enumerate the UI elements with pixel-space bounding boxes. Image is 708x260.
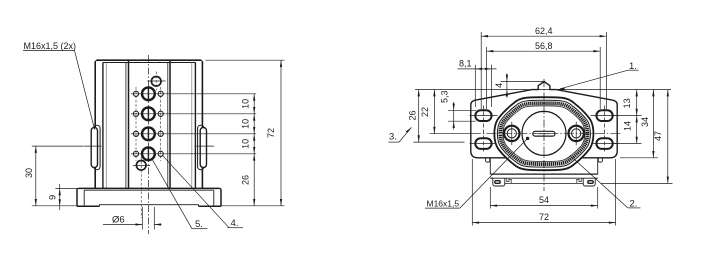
label M16x1,5 front underline bbox=[425, 207, 460, 209]
svg-text:3.: 3. bbox=[389, 132, 397, 143]
obround TR cross bbox=[591, 115, 619, 117]
body right edge bbox=[201, 61, 203, 188]
boss seal hatch band ticks bbox=[500, 103, 587, 164]
dim 13 14 ext bottom bbox=[612, 143, 642, 145]
ground line left bbox=[32, 205, 78, 207]
small hole axis right dashed bbox=[160, 87, 162, 161]
front view horizontal center line bbox=[430, 133, 471, 135]
base right foot bbox=[583, 178, 598, 186]
dim 72 arrows front bbox=[472, 221, 615, 223]
base upper line bbox=[490, 177, 597, 179]
central boss outer contour bbox=[494, 97, 593, 170]
svg-text:10: 10 bbox=[240, 99, 250, 109]
svg-text:4.: 4. bbox=[231, 218, 239, 229]
dim 62,4 arrows bbox=[481, 35, 606, 37]
dia6 right arrow bbox=[154, 223, 161, 225]
dim 8,1 arrows bbox=[475, 68, 491, 70]
dim 47 arrows bbox=[667, 90, 669, 184]
plate right foot tab bbox=[598, 158, 602, 162]
hole extension line left bbox=[141, 207, 143, 230]
dim 72 bottom arrow bbox=[280, 199, 282, 206]
dim 13 arrows bbox=[636, 90, 638, 116]
dim 22 arrows bbox=[433, 90, 435, 134]
plug P3 bbox=[142, 127, 155, 140]
base flange top-left corner bbox=[77, 188, 79, 190]
small hole R1 bbox=[158, 91, 163, 96]
rear plate top edge bbox=[415, 89, 671, 91]
dim 47 ext bottom bbox=[601, 182, 673, 184]
obround left axis dashed bbox=[483, 106, 485, 154]
dia6 dimension line bbox=[103, 224, 142, 226]
dim 72 ext right front bbox=[615, 159, 617, 226]
right boss front outline bbox=[200, 128, 206, 168]
dim 30 line bbox=[35, 146, 37, 206]
dim 8,1 ext left bbox=[474, 65, 476, 107]
dim 26 arrows front bbox=[418, 90, 420, 143]
svg-text:47: 47 bbox=[653, 131, 663, 141]
leader 1 arrow bbox=[558, 88, 565, 90]
plug P1 bbox=[142, 87, 155, 100]
dim 10 arrows r1 bbox=[253, 94, 255, 114]
dim 4 arrows bbox=[506, 75, 508, 97]
dim 5,3 ext top bbox=[448, 109, 476, 111]
plug P4 bbox=[142, 147, 155, 160]
base left notch bbox=[507, 178, 511, 183]
svg-text:10: 10 bbox=[240, 119, 250, 129]
boss face contour bbox=[503, 106, 585, 162]
obround TL cross bbox=[470, 115, 498, 117]
label 1 underline bbox=[628, 69, 639, 71]
top extension right bbox=[206, 59, 285, 61]
body vertical line c1 bbox=[167, 63, 169, 189]
central circle bbox=[522, 111, 566, 155]
body vertical line b1 bbox=[125, 63, 127, 189]
ground extension right bbox=[205, 205, 285, 207]
dim 56,8 ext right bbox=[599, 47, 601, 109]
hole extension line right bbox=[153, 207, 155, 230]
svg-text:9: 9 bbox=[48, 195, 58, 200]
label 2 underline bbox=[628, 207, 641, 209]
top plug cross line bbox=[148, 80, 166, 82]
dim 9 top arrow bbox=[59, 188, 61, 195]
base right notch bbox=[577, 178, 581, 183]
svg-text:72: 72 bbox=[266, 128, 276, 138]
svg-text:Ø6: Ø6 bbox=[112, 215, 125, 226]
right boss center line bbox=[196, 145, 214, 147]
bottom plug circle bbox=[136, 161, 146, 171]
dim 5,3 ext bottom bbox=[448, 120, 476, 122]
dim 54 ext right bbox=[597, 187, 599, 209]
dim 62,4 ext right bbox=[605, 32, 607, 109]
base recessed bottom bbox=[100, 205, 199, 207]
leader 4 bbox=[163, 156, 229, 228]
top plug circle bbox=[151, 77, 161, 87]
base flange second line bbox=[84, 189, 214, 191]
svg-text:72: 72 bbox=[539, 212, 549, 222]
obround BR cross bbox=[591, 143, 619, 145]
small hole R4 bbox=[158, 151, 163, 156]
dim 4 ext line bbox=[501, 80, 545, 82]
base left foot bbox=[490, 178, 505, 186]
front view vertical center line bbox=[543, 79, 545, 191]
leader 3 bbox=[399, 127, 412, 142]
boss inner contour 1 bbox=[497, 100, 590, 167]
small hole axis left dashed bbox=[135, 87, 137, 161]
dim 62,4 line bbox=[481, 35, 606, 37]
row line 4 bbox=[131, 153, 256, 155]
dim 8,1 line bbox=[458, 68, 497, 70]
dim 30 extension line bbox=[32, 145, 83, 147]
dia6 right tail bbox=[154, 224, 161, 226]
port circle left outer bbox=[504, 126, 519, 141]
boss seal hatch band bbox=[500, 103, 587, 164]
base right foot bottom bbox=[199, 205, 222, 207]
dim 47 line bbox=[667, 90, 669, 184]
small hole R2 bbox=[158, 111, 163, 116]
dim 54 line bbox=[490, 205, 597, 207]
dim 72 line front bbox=[472, 222, 615, 224]
center slot outer bbox=[533, 131, 555, 136]
label M16x1,5 (2x) underline bbox=[23, 50, 75, 52]
svg-text:M16x1,5 (2x): M16x1,5 (2x) bbox=[24, 41, 77, 51]
leader M16 front bbox=[460, 138, 528, 208]
dim 26 line front bbox=[418, 90, 420, 143]
row line 2 bbox=[131, 113, 256, 115]
body sides below plate right bbox=[597, 158, 599, 174]
column top right edge mark bbox=[159, 60, 161, 62]
svg-text:22: 22 bbox=[420, 107, 430, 117]
leader M16 dot bbox=[526, 137, 529, 140]
dim 56,8 line bbox=[487, 50, 601, 52]
base left foot bottom bbox=[77, 205, 100, 207]
dim 72 ext left front bbox=[471, 159, 473, 226]
port circle left inner bbox=[507, 129, 516, 138]
dim 5,3 line bbox=[453, 102, 455, 130]
center slot inner line bbox=[539, 133, 550, 135]
svg-text:30: 30 bbox=[24, 168, 34, 178]
center axis dash-dot bbox=[147, 55, 149, 234]
dim 54 arrows bbox=[490, 204, 597, 206]
dim 34 arrows bbox=[652, 90, 654, 158]
base middle bottom bbox=[505, 182, 583, 184]
base flange top-right corner bbox=[219, 188, 221, 190]
dim 9 extension line bbox=[55, 187, 78, 189]
label 3 underline bbox=[389, 141, 400, 143]
body outline top edge bbox=[96, 59, 201, 61]
body left edge bbox=[94, 61, 96, 188]
dim 30 top arrow bbox=[35, 146, 37, 153]
leader M16 left view bbox=[75, 51, 95, 130]
dim 14 arrows bbox=[636, 116, 638, 144]
plug P4 slot bbox=[147, 147, 149, 162]
port circle right inner bbox=[572, 129, 581, 138]
body vertical line c2 bbox=[169, 60, 171, 188]
svg-text:56,8: 56,8 bbox=[535, 41, 553, 51]
right boss rear outline bbox=[198, 125, 204, 170]
obround BL cross bbox=[470, 143, 498, 145]
dim 10 arrows r2 bbox=[253, 114, 255, 134]
left boss center line bbox=[84, 145, 102, 147]
dim 26 ext bottom bbox=[414, 141, 465, 143]
base right foot inner bar bbox=[588, 181, 593, 184]
dim 56,8 arrows bbox=[487, 50, 601, 52]
dim 9 bottom arrow bbox=[59, 199, 61, 206]
obround slot bottom-left bbox=[475, 138, 491, 149]
top plug axis dashed bbox=[155, 72, 157, 91]
front plate outline bbox=[471, 82, 617, 158]
leader 1 bbox=[560, 70, 628, 89]
dim 34 ext bottom bbox=[620, 157, 658, 159]
row line 1 bbox=[131, 93, 256, 95]
dim 13 line bbox=[636, 90, 638, 144]
base flange right edge bbox=[220, 190, 222, 206]
leader 5 bbox=[152, 159, 192, 229]
base flange top line bbox=[79, 187, 220, 189]
svg-text:14: 14 bbox=[623, 121, 633, 131]
svg-text:10: 10 bbox=[240, 139, 250, 149]
dia6 left arrow bbox=[136, 223, 143, 225]
svg-text:26: 26 bbox=[240, 175, 250, 185]
obround slot top-left bbox=[475, 110, 491, 121]
left boss rear outline bbox=[94, 125, 100, 170]
plate left foot tab bbox=[486, 158, 490, 162]
label 5 underline bbox=[192, 228, 208, 230]
small hole R3 bbox=[158, 131, 163, 136]
body vertical line d2 bbox=[194, 63, 196, 189]
base flange left step bbox=[83, 190, 85, 206]
svg-text:5,3: 5,3 bbox=[440, 90, 450, 103]
base flange right step bbox=[213, 190, 215, 206]
body sides below plate left bbox=[489, 158, 491, 174]
small hole L4 bbox=[133, 151, 138, 156]
plug P2 bbox=[142, 107, 155, 120]
dim 30 bottom arrow bbox=[35, 199, 37, 206]
bottom plug cross line bbox=[133, 165, 150, 167]
body top-left chamfer bbox=[95, 60, 96, 61]
base flange left edge bbox=[76, 190, 78, 206]
small hole L1 bbox=[133, 91, 138, 96]
dim 5,3 arrows bbox=[453, 104, 455, 129]
svg-text:5.: 5. bbox=[195, 219, 203, 230]
row line 3 bbox=[131, 133, 256, 135]
dim 9 line bbox=[59, 184, 61, 210]
bottom plug axis dashed bbox=[140, 157, 142, 218]
port circle right outer bbox=[569, 126, 584, 141]
obround slot bottom-right bbox=[596, 138, 612, 149]
base left foot inner bar bbox=[495, 181, 500, 184]
body inner top edge bbox=[103, 62, 196, 64]
plug P1 slot bbox=[147, 87, 149, 102]
port left vertical cross bbox=[511, 122, 513, 146]
body vertical line d1 bbox=[191, 63, 193, 189]
svg-text:13: 13 bbox=[622, 98, 632, 108]
body vertical line a2 bbox=[105, 63, 107, 189]
plug P3 slot bbox=[147, 127, 149, 142]
body bottom edge bbox=[490, 173, 597, 175]
dim 62,4 ext left bbox=[480, 32, 482, 109]
svg-text:8,1: 8,1 bbox=[459, 59, 472, 69]
dim 22 line bbox=[433, 90, 435, 134]
body vertical line b2 bbox=[128, 60, 130, 188]
obround slot top-right bbox=[596, 110, 612, 121]
leader 2 bbox=[570, 155, 628, 208]
dim 26 arrows bbox=[253, 154, 255, 206]
dim 10 line column bbox=[253, 94, 255, 206]
dim 34 line bbox=[652, 90, 654, 158]
dim 8,1 ext right bbox=[491, 65, 493, 107]
dim 56,8 ext left bbox=[486, 47, 488, 109]
left boss front outline bbox=[91, 128, 97, 168]
leader 3 arrow bbox=[406, 127, 412, 133]
label 4 underline bbox=[228, 227, 244, 229]
svg-text:54: 54 bbox=[539, 195, 549, 205]
svg-text:M16x1,5: M16x1,5 bbox=[427, 198, 460, 208]
column top left edge mark bbox=[137, 60, 139, 62]
obround right axis dashed bbox=[604, 106, 606, 154]
dim 72 line left view bbox=[280, 60, 282, 206]
dim 13 14 ext top bbox=[612, 115, 642, 117]
body top-right chamfer bbox=[201, 60, 202, 61]
port right vertical cross bbox=[575, 122, 577, 146]
dim 72 top arrow bbox=[280, 60, 282, 67]
body vertical line a1 bbox=[102, 63, 104, 189]
svg-text:4: 4 bbox=[494, 83, 504, 88]
dim 10 arrows r3 bbox=[253, 134, 255, 154]
svg-text:26: 26 bbox=[407, 110, 417, 120]
dim 54 ext left bbox=[489, 187, 491, 209]
svg-text:34: 34 bbox=[640, 117, 650, 127]
small hole L3 bbox=[133, 131, 138, 136]
plug P2 slot bbox=[147, 107, 149, 122]
svg-text:62,4: 62,4 bbox=[535, 26, 553, 36]
dim 4 line bbox=[506, 74, 508, 98]
small hole L2 bbox=[133, 111, 138, 116]
